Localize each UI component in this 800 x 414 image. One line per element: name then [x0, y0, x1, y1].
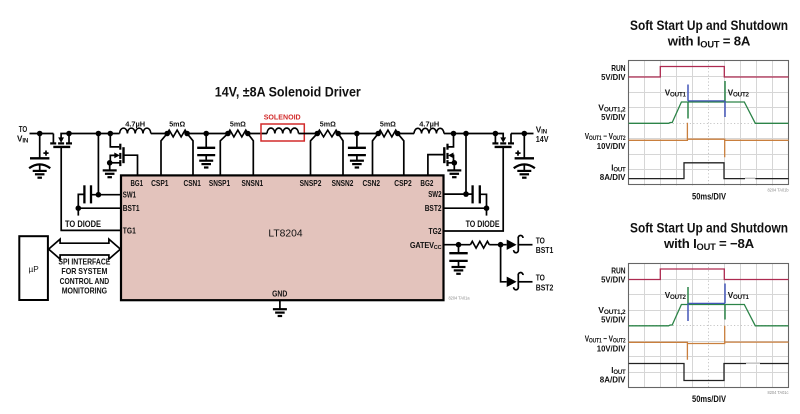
svg-text:50ms/DIV: 50ms/DIV	[692, 394, 727, 404]
svg-text:SW1: SW1	[123, 190, 137, 199]
svg-text:BG2: BG2	[420, 179, 434, 188]
svg-text:BST1: BST1	[536, 246, 554, 255]
svg-text:TG1: TG1	[123, 227, 137, 236]
svg-text:Soft Start Up and Shutdown: Soft Start Up and Shutdown	[630, 17, 788, 33]
svg-text:5V/DIV: 5V/DIV	[601, 315, 626, 325]
svg-text:8A/DIV: 8A/DIV	[600, 172, 626, 182]
svg-text:4.7µH: 4.7µH	[125, 119, 145, 128]
svg-text:SNSP1: SNSP1	[209, 179, 231, 188]
svg-text:8204 TA01a: 8204 TA01a	[449, 295, 470, 300]
svg-text:5V/DIV: 5V/DIV	[601, 275, 626, 285]
svg-text:BST1: BST1	[123, 204, 140, 213]
svg-text:µP: µP	[29, 265, 40, 274]
svg-text:SNSP2: SNSP2	[300, 179, 322, 188]
svg-text:TO DIODE: TO DIODE	[65, 219, 101, 229]
svg-text:BST2: BST2	[425, 204, 442, 213]
svg-text:5V/DIV: 5V/DIV	[601, 112, 626, 122]
svg-text:SNSN1: SNSN1	[242, 179, 264, 188]
svg-text:GND: GND	[272, 289, 287, 298]
svg-text:SPI INTERFACE: SPI INTERFACE	[58, 257, 110, 267]
svg-text:TO DIODE: TO DIODE	[466, 219, 500, 229]
svg-text:TO: TO	[536, 236, 546, 245]
svg-text:BG1: BG1	[131, 179, 144, 188]
svg-text:CSN1: CSN1	[184, 179, 202, 188]
svg-text:10V/DIV: 10V/DIV	[597, 141, 626, 151]
svg-text:LT8204: LT8204	[268, 229, 302, 240]
svg-text:CONTROL AND: CONTROL AND	[60, 276, 110, 286]
svg-text:TO: TO	[19, 125, 28, 134]
svg-text:5V/DIV: 5V/DIV	[601, 72, 626, 82]
svg-text:4.7µH: 4.7µH	[419, 119, 439, 128]
svg-text:8204 TA01b: 8204 TA01b	[768, 188, 789, 193]
svg-text:TG2: TG2	[429, 227, 443, 236]
svg-text:CSN2: CSN2	[363, 179, 381, 188]
svg-text:CSP1: CSP1	[151, 179, 169, 188]
svg-text:5mΩ: 5mΩ	[320, 119, 336, 128]
svg-text:FOR SYSTEM: FOR SYSTEM	[61, 266, 107, 276]
svg-text:SOLENOID: SOLENOID	[264, 112, 301, 121]
svg-text:Soft Start Up and Shutdown: Soft Start Up and Shutdown	[630, 220, 788, 236]
svg-text:5mΩ: 5mΩ	[169, 119, 185, 128]
svg-text:MONITORING: MONITORING	[62, 285, 107, 295]
svg-text:50ms/DIV: 50ms/DIV	[692, 191, 727, 201]
svg-text:5mΩ: 5mΩ	[230, 119, 246, 128]
svg-text:CSP2: CSP2	[394, 179, 412, 188]
svg-text:14V, ±8A Solenoid Driver: 14V, ±8A Solenoid Driver	[215, 85, 361, 101]
svg-text:BST2: BST2	[536, 283, 554, 292]
svg-text:8A/DIV: 8A/DIV	[600, 375, 626, 385]
svg-text:TO: TO	[536, 273, 546, 282]
svg-text:10V/DIV: 10V/DIV	[597, 343, 626, 353]
svg-text:14V: 14V	[536, 135, 549, 144]
svg-text:SNSN2: SNSN2	[332, 179, 354, 188]
svg-text:5mΩ: 5mΩ	[380, 119, 396, 128]
svg-text:SW2: SW2	[428, 190, 442, 199]
svg-text:8204 TA01c: 8204 TA01c	[768, 390, 790, 395]
